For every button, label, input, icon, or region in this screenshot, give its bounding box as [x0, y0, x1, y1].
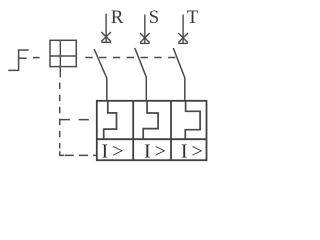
wire dashed branch to thermal releases [60, 119, 97, 121]
mechanism cross horizontal [50, 55, 76, 57]
wire pole 2 down to housing [145, 77, 147, 101]
separator thermal / magnetic sections [97, 138, 207, 140]
breaker housing box [97, 101, 207, 160]
wire dashed link handle to mechanism [33, 57, 40, 59]
svg-text:T: T [187, 7, 199, 28]
contact blade pole 2 [135, 48, 147, 77]
svg-text:I >: I > [102, 140, 124, 162]
thermal overload release pole 2 (S-jog heater) [143, 101, 158, 139]
cell divider 1 [132, 101, 134, 160]
wire dashed trip linkage trunk [59, 83, 61, 149]
terminal S (plug-in terminal 3) [140, 15, 150, 44]
wire dashed mechanism link to contact blades [85, 57, 177, 59]
mechanism cross vertical with lower stub [59, 40, 61, 77]
svg-text:I >: I > [144, 140, 166, 162]
wire dashed branch to magnetic releases [60, 151, 64, 155]
contact blade pole 3 [173, 48, 185, 78]
contact blade pole 1 [94, 49, 107, 78]
svg-text:I >: I > [181, 140, 203, 162]
wire pole 1 down to housing [106, 78, 108, 101]
thermal overload release pole 3 (S-jog heater) [185, 101, 200, 139]
manual operator handle (F-shaped actuator) [8, 50, 28, 70]
cell divider 2 [170, 101, 172, 160]
terminal R (plug-in terminal 1) [101, 14, 111, 43]
wire pole 3 down to housing [184, 78, 186, 102]
svg-text:R: R [111, 7, 124, 28]
operating mechanism box U1 [50, 40, 76, 66]
terminal T (plug-in terminal 5) [178, 15, 188, 44]
svg-text:S: S [149, 7, 160, 28]
thermal overload release pole 1 (S-jog heater) [104, 101, 117, 139]
